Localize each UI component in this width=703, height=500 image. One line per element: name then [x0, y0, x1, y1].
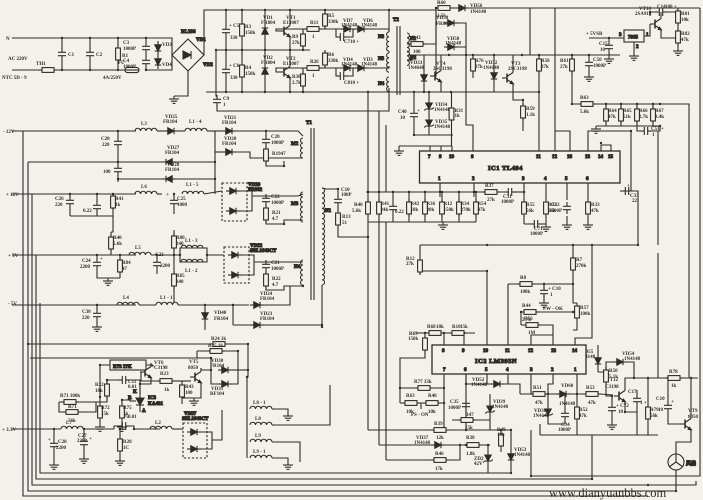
svg-text:R21: R21: [272, 211, 281, 216]
svg-text:1N4148: 1N4148: [624, 357, 641, 362]
svg-text:T1: T1: [306, 121, 312, 126]
wire VT2 base row: [276, 66, 389, 72]
svg-text:R85: R85: [176, 274, 185, 279]
svg-text:+ 12V: + 12V: [6, 193, 19, 198]
resistor R12c: [406, 257, 422, 275]
junction: [388, 9, 390, 11]
wire v23: [23, 131, 648, 496]
svg-text:2SC3198: 2SC3198: [433, 67, 452, 72]
resistor R44: [521, 304, 539, 323]
inductor L9: [250, 434, 272, 442]
junction: [367, 191, 369, 193]
svg-text:R68: R68: [427, 325, 436, 330]
junction: [620, 103, 622, 105]
wire R5 leads: [324, 10, 326, 29]
resistor R67: [651, 106, 665, 124]
resistor R1: [116, 45, 129, 63]
svg-text:330k: 330k: [328, 59, 339, 64]
wire VT1 collector: [289, 10, 291, 22]
svg-text:220: 220: [55, 203, 63, 208]
svg-text:16: 16: [567, 155, 573, 160]
wire N1 top lead: [322, 188, 338, 189]
resistor R55: [522, 199, 536, 217]
junction: [473, 191, 475, 193]
junction: [423, 91, 425, 93]
svg-text:27k: 27k: [487, 198, 495, 203]
svg-text:1000: 1000: [177, 203, 188, 208]
wire C3 C4 column: [145, 38, 147, 70]
wire VT3 emitter: [513, 87, 523, 100]
svg-text:100k: 100k: [580, 312, 591, 317]
capacitor C40: [398, 109, 420, 121]
wire L2 right: [172, 428, 183, 430]
diode VD40: [202, 309, 229, 323]
diode VD21: [222, 116, 237, 134]
wire C28 leads: [53, 429, 55, 462]
svg-text:1N4148: 1N4148: [533, 414, 550, 419]
wire R59 leads: [522, 100, 524, 131]
junction: [204, 304, 206, 306]
junction: [472, 54, 474, 56]
capacitor C25: [166, 193, 188, 208]
wire VD31 net: [211, 351, 238, 384]
wire -5V rail: [12, 304, 136, 306]
wire VT5 emitter: [182, 386, 201, 398]
wire long v2: [378, 111, 380, 192]
wire VD22 to N4: [254, 261, 303, 263]
svg-text:C1: C1: [68, 53, 75, 58]
wire pin11 col: [507, 284, 509, 345]
svg-text:+ C5: + C5: [229, 24, 240, 29]
rectifier VD29 box: [222, 183, 263, 221]
wire VT2 collector: [289, 50, 291, 63]
svg-text:C32: C32: [551, 203, 560, 208]
svg-text:1N4148: 1N4148: [434, 125, 451, 130]
wire R3 column: [241, 10, 243, 50]
inductor L5: [129, 246, 151, 255]
resistor R60: [435, 1, 453, 19]
wire pin3 col: [530, 374, 532, 394]
wire R57 col: [573, 284, 577, 330]
wire VT12 emitter: [625, 405, 637, 412]
diode VD6: [354, 19, 378, 32]
capacitor C71: [530, 220, 543, 237]
wire VT10 base: [661, 31, 678, 38]
diode VD32: [483, 61, 500, 83]
svg-text:+ 3.3V: + 3.3V: [2, 428, 16, 433]
junction: [413, 134, 415, 136]
junction: [264, 49, 266, 51]
diode VD1p: [261, 16, 276, 38]
resistor R63b: [402, 394, 420, 415]
svg-text:10 +: 10 +: [350, 81, 359, 86]
resistor R85: [172, 271, 186, 289]
junction: [630, 130, 632, 132]
junction: [96, 193, 98, 195]
resistor R25: [207, 344, 225, 353]
wire bus224: [524, 223, 546, 225]
wire pin6 col: [465, 374, 467, 430]
svg-text:1N4148: 1N4148: [483, 66, 500, 71]
svg-text:RL206: RL206: [181, 30, 196, 35]
junction: [337, 188, 339, 190]
transistor VT12: [605, 378, 625, 405]
capacitor C51: [640, 127, 664, 138]
svg-text:47k: 47k: [588, 401, 596, 406]
svg-text:FR804: FR804: [436, 22, 451, 27]
wire choke col: [246, 409, 248, 458]
wire T2 N3 top feed: [388, 10, 390, 32]
svg-text:1.1k: 1.1k: [526, 113, 535, 118]
junction: [493, 54, 495, 56]
wire IC1 pin6 col: [587, 183, 589, 222]
junction: [443, 429, 445, 431]
resistor R47: [458, 413, 476, 431]
wire VD55 col: [597, 345, 599, 372]
transformer T1: [291, 121, 332, 300]
junction: [463, 332, 465, 334]
wire TH1 to FU: [55, 69, 125, 71]
wire R23 right: [175, 380, 191, 382]
svg-text:C15: C15: [599, 42, 608, 47]
svg-text:- 12V: - 12V: [3, 130, 15, 135]
resistor R56: [523, 317, 541, 336]
wire R24 row: [28, 343, 248, 345]
resistor R77: [414, 380, 433, 390]
svg-text:1000P: 1000P: [558, 428, 571, 433]
wire R19 bottom: [266, 161, 284, 166]
svg-text:330k: 330k: [328, 20, 339, 25]
junction: [225, 49, 227, 51]
svg-text:56k: 56k: [526, 209, 534, 214]
junction: [283, 223, 285, 225]
resistor R13: [336, 210, 352, 228]
wire R56 row: [521, 325, 553, 345]
svg-text:R71 100k: R71 100k: [60, 394, 80, 399]
junction: [459, 444, 461, 446]
resistor R66: [635, 106, 649, 124]
junction: [520, 311, 522, 313]
wire R9 leads: [302, 29, 304, 50]
capacitor C34: [558, 409, 571, 433]
diode VD20: [222, 137, 237, 155]
svg-text:330: 330: [230, 36, 238, 41]
svg-text:42V: 42V: [474, 462, 483, 467]
svg-text:R33: R33: [591, 203, 600, 208]
svg-text:2.7k: 2.7k: [292, 81, 301, 86]
svg-text:0.01: 0.01: [128, 415, 137, 420]
svg-text:1N4148: 1N4148: [471, 383, 488, 388]
svg-text:R81: R81: [681, 12, 690, 17]
svg-text:NTC 5D - 9: NTC 5D - 9: [2, 76, 27, 81]
wire IC1 pin11: [538, 92, 540, 151]
wire bottom rail primary: [206, 91, 539, 93]
wire VD29 to M3: [252, 194, 303, 196]
svg-text:2SA918: 2SA918: [635, 12, 652, 17]
svg-text:R64: R64: [608, 109, 617, 114]
wire VD27 right: [176, 161, 215, 163]
svg-text:R30: R30: [292, 75, 301, 80]
svg-text:150k: 150k: [444, 208, 455, 213]
wire C29 leads: [117, 131, 119, 162]
ground under 7805: [629, 53, 639, 60]
ground C30: [92, 324, 102, 331]
resistor R79: [646, 404, 660, 422]
svg-text:L5: L5: [135, 246, 141, 251]
svg-text:12: 12: [552, 155, 558, 160]
resistor R34: [457, 199, 471, 217]
svg-text:+: +: [417, 109, 420, 114]
wire +3.3V rail: [12, 428, 61, 430]
wire VD27 row: [28, 161, 162, 163]
resistor R32: [544, 199, 558, 217]
junction: [173, 254, 175, 256]
wire R84 leads: [119, 255, 121, 278]
resistor R84: [118, 257, 132, 275]
svg-text:1N4148: 1N4148: [514, 453, 531, 458]
resistor R75: [120, 403, 133, 421]
wire bridge bottom to ground: [174, 71, 188, 96]
diode VD39: [485, 400, 508, 416]
capacitor C29: [101, 137, 122, 149]
svg-text:27k: 27k: [560, 65, 568, 70]
wire R4 column: [241, 50, 243, 92]
svg-text:22: 22: [632, 199, 638, 204]
wire L13 link: [180, 248, 207, 255]
capacitor C7: [336, 33, 359, 45]
junction: [465, 54, 467, 56]
svg-text:L1 - 3: L1 - 3: [185, 239, 198, 244]
junction: [572, 311, 574, 313]
wire R47 row: [452, 419, 490, 421]
svg-text:R63: R63: [406, 394, 415, 399]
bridge rectifier RL206: [172, 30, 213, 71]
wire C50 leads: [588, 55, 590, 74]
wire long v3: [385, 125, 387, 192]
svg-text:47k: 47k: [608, 115, 616, 120]
svg-text:2200: 2200: [56, 446, 67, 451]
wire 7805 out: [644, 24, 650, 36]
svg-text:2200: 2200: [160, 264, 171, 269]
svg-text:1N4648: 1N4648: [408, 66, 425, 71]
junction: [206, 254, 208, 256]
wire VD22 out: [242, 255, 254, 275]
junction: [210, 357, 212, 359]
wire R69 col: [400, 333, 425, 388]
wire R44 row: [521, 311, 573, 313]
svg-text:C20: C20: [271, 135, 280, 140]
wire VT6 links: [151, 363, 153, 366]
wire VD30 to L8: [247, 344, 248, 409]
wire C27 leads: [83, 429, 85, 456]
wire pin staple: [399, 146, 452, 148]
capacitor C24: [80, 257, 103, 270]
wire R80 leads: [173, 230, 175, 255]
capacitor C2: [86, 48, 103, 60]
svg-text:R5: R5: [328, 14, 335, 19]
wire C14 row: [650, 11, 678, 13]
wire R43 to right: [426, 8, 436, 44]
inductor L7: [61, 421, 83, 429]
wire VT9 collector: [690, 378, 692, 415]
wire ZD2 col: [487, 445, 489, 473]
wire C72 leads: [611, 396, 613, 422]
svg-text:R76: R76: [475, 59, 484, 64]
svg-text:C10: C10: [656, 397, 665, 402]
capacitor C17: [628, 390, 647, 406]
resistor R53: [583, 386, 601, 406]
junction: [408, 191, 410, 193]
capacitor C5: [222, 24, 240, 41]
resistor R52: [575, 404, 589, 422]
junction: [500, 429, 502, 431]
junction: [96, 304, 98, 306]
junction: [439, 191, 441, 193]
svg-text:R48: R48: [428, 394, 437, 399]
diode ZD2: [474, 451, 493, 467]
svg-text:13: 13: [551, 349, 557, 354]
junction: [324, 9, 326, 11]
svg-text:FR104: FR104: [222, 121, 237, 126]
wire VD28 right: [176, 178, 215, 180]
svg-text:2200: 2200: [77, 439, 88, 444]
svg-text:E13007: E13007: [283, 21, 299, 26]
junction: [605, 103, 607, 105]
junction: [156, 254, 158, 256]
inductor L8: [250, 417, 272, 425]
junction: [89, 37, 91, 39]
svg-text:R65: R65: [623, 109, 632, 114]
wire R bank bottom: [596, 121, 660, 126]
svg-text:18k: 18k: [436, 325, 444, 330]
svg-text:27k: 27k: [541, 65, 549, 70]
wire C9 bottom line: [217, 91, 389, 111]
svg-text:+: +: [166, 193, 169, 198]
svg-text:56k: 56k: [68, 419, 76, 424]
resistor R68: [426, 325, 444, 335]
svg-text:1N4148: 1N4148: [470, 10, 487, 15]
junction: [443, 387, 445, 389]
wire VD40 leads: [204, 305, 206, 330]
wire VD53 col: [510, 430, 512, 473]
junction: [173, 193, 175, 195]
diode VD29b: [226, 208, 240, 214]
wire VT4 emitter: [440, 85, 442, 92]
svg-text:270k: 270k: [461, 208, 472, 213]
junction: [367, 236, 369, 238]
wire T2 N5 junction: [388, 51, 390, 53]
svg-text:R66: R66: [639, 109, 648, 114]
junction: [443, 402, 445, 404]
inductor L13: [181, 239, 203, 248]
wire R63 row: [572, 103, 660, 105]
wire VD37 row: [379, 444, 490, 446]
wire R bank top2: [637, 104, 653, 109]
wire L8 right: [272, 385, 330, 425]
junction: [667, 377, 669, 379]
svg-text:C3198: C3198: [605, 385, 619, 390]
resistor R39: [431, 422, 449, 441]
diode VD7: [340, 19, 358, 32]
wire C1 leads: [61, 38, 63, 70]
junction: [690, 377, 692, 379]
svg-text:L1 - 4: L1 - 4: [189, 120, 202, 125]
svg-text:R23: R23: [160, 372, 169, 377]
wire IC1 pin3 col: [523, 183, 525, 224]
wire v32: [32, 194, 696, 485]
svg-text:R4: R4: [245, 66, 252, 71]
resistor R78: [665, 370, 683, 389]
inductor L2: [150, 421, 172, 429]
svg-text:12: 12: [528, 349, 534, 354]
svg-text:+ C6: + C6: [229, 64, 240, 69]
svg-text:R7: R7: [576, 258, 583, 263]
svg-text:C3198: C3198: [154, 366, 168, 371]
junction: [523, 191, 525, 193]
svg-text:15k: 15k: [460, 325, 468, 330]
wire C8 right: [346, 68, 353, 76]
svg-text:L2: L2: [155, 421, 161, 426]
wire R75 leads: [121, 400, 123, 424]
svg-text:C23: C23: [155, 253, 164, 258]
wire mid rail: [216, 49, 310, 51]
svg-text:0.22: 0.22: [83, 209, 92, 214]
wire pin13 col: [531, 335, 553, 345]
junction: [571, 54, 573, 56]
capacitor C1: [58, 48, 75, 60]
svg-text:FR804: FR804: [261, 61, 276, 66]
junction: [465, 429, 467, 431]
junction: [659, 103, 661, 105]
capacitor C27: [77, 434, 92, 449]
diode VD28: [162, 163, 180, 182]
diode VD33: [408, 61, 427, 85]
junction: [112, 193, 114, 195]
svg-text:SBL1640CT: SBL1640CT: [182, 417, 209, 422]
wire C2 leads: [89, 38, 91, 70]
svg-text:风扇: 风扇: [686, 460, 696, 467]
svg-text:1 +: 1 +: [640, 401, 647, 406]
wire bank bus: [366, 191, 476, 193]
resistor R24: [210, 337, 228, 346]
resistor R46: [431, 452, 449, 472]
junction: [475, 191, 477, 193]
resistor R80: [172, 233, 186, 251]
svg-text:100: 100: [103, 170, 111, 175]
resistor R9: [292, 31, 305, 49]
junction: [27, 343, 29, 345]
svg-text:C2: C2: [96, 53, 103, 58]
svg-text:13: 13: [585, 155, 591, 160]
wire L9 right: [272, 442, 300, 462]
transistor VT6: [140, 361, 168, 381]
wire C16 leads: [543, 284, 545, 300]
wire R77 net: [400, 387, 444, 389]
transistor VT1: [279, 16, 299, 40]
svg-text:4.7: 4.7: [272, 283, 279, 288]
wire VD1 column: [264, 10, 266, 50]
resistor R65: [619, 106, 633, 124]
wire C34 leads: [564, 394, 566, 424]
diode VD60: [556, 384, 576, 407]
svg-text:+ 5V: + 5V: [8, 254, 19, 259]
junction: [647, 484, 649, 486]
svg-text:4A/250V: 4A/250V: [103, 76, 122, 81]
svg-text:E13007: E13007: [283, 62, 299, 67]
svg-text:+: +: [627, 184, 630, 189]
wire C20 link: [265, 131, 267, 149]
svg-text:VD60: VD60: [561, 384, 574, 389]
